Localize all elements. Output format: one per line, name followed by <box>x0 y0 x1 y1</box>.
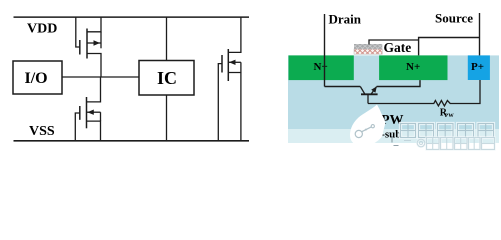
svg-text:Source: Source <box>435 11 473 26</box>
gate electrode (poly) <box>354 44 382 49</box>
Drain terminal line <box>324 14 326 87</box>
M1 gate bar <box>79 40 81 55</box>
wire: drain N+ to BJT collector <box>325 86 361 88</box>
svg-text:PW: PW <box>445 113 454 119</box>
M1 drain lead to VDD <box>87 17 101 32</box>
Source metal wire <box>419 38 480 56</box>
parasitic BJT Q1 (NPN) <box>360 86 377 103</box>
M3 gate bar <box>221 55 223 73</box>
Q1 emitter diagonal with arrow <box>371 87 377 95</box>
M2 gate lead from VSS rail <box>75 113 80 141</box>
M1 bulk-drain tie <box>100 32 102 49</box>
N+ diffusion (drain) <box>289 55 354 80</box>
wire: VDD to IC <box>166 17 168 61</box>
M2 bulk lead with arrow <box>87 111 101 113</box>
M1 source lead to I/O net <box>87 54 101 78</box>
watermark text line 2 (white halo) <box>417 138 494 150</box>
svg-text:N+: N+ <box>314 61 328 73</box>
watermark text line 1 <box>401 124 494 138</box>
M3 drain lead to VDD <box>228 17 241 52</box>
M2 source lead to VSS <box>87 121 101 141</box>
M2 bulk-source tie <box>100 112 102 121</box>
I/O block <box>13 61 62 94</box>
M1 channel bar <box>86 29 88 59</box>
M3 gate lead to VSS rail <box>218 64 222 142</box>
M2 drain lead to I/O net <box>87 77 101 102</box>
M3 source lead to VSS <box>228 73 241 142</box>
M2 gate bar <box>79 106 81 120</box>
Gate terminal box <box>369 40 419 45</box>
svg-text:Drain: Drain <box>329 12 362 27</box>
M1 gate lead from VDD rail <box>76 17 80 47</box>
transistor M3 (NMOS clamp between rails) <box>218 17 241 141</box>
VSS rail (bottom) <box>14 140 250 142</box>
svg-text:IC: IC <box>157 68 177 88</box>
transistor M1 (PMOS pull-up, gate tied to VDD) <box>76 17 101 77</box>
svg-text:VSS: VSS <box>29 124 55 139</box>
M3 channel bar <box>227 49 229 81</box>
N+ diffusion (source) <box>379 55 447 80</box>
M1 bulk lead with arrow <box>87 42 101 44</box>
watermark text line 1 (white halo) <box>401 124 494 138</box>
watermark swoosh logo <box>350 105 385 147</box>
IC block <box>139 61 194 96</box>
P-sub layer <box>288 129 499 143</box>
M3 bulk lead with arrow <box>228 61 241 63</box>
transistor M2 (NMOS pull-down, gate tied to VSS) <box>75 77 100 141</box>
svg-text:I/O: I/O <box>25 70 48 87</box>
Q1 collector diagonal <box>360 87 365 95</box>
watermark text line 2 <box>392 137 495 150</box>
Q1 base bar <box>361 93 378 95</box>
wire: I/O pad net (I/O box to IC box) <box>62 76 139 78</box>
M2 channel bar <box>86 97 88 128</box>
PW well region <box>288 55 499 129</box>
VDD rail (top) <box>14 16 250 18</box>
resistor R_PW <box>368 80 480 119</box>
svg-text:N+: N+ <box>406 61 420 73</box>
wire: BJT emitter to source N+ <box>377 80 420 86</box>
gate oxide hatch <box>354 49 382 54</box>
svg-text:P+: P+ <box>471 61 484 73</box>
Q1 base lead down <box>367 94 369 103</box>
P+ diffusion (bulk contact) <box>468 55 490 80</box>
M3 bulk-source tie <box>240 62 242 72</box>
Source terminal line <box>479 13 481 55</box>
svg-text:Gate: Gate <box>384 40 412 55</box>
wire: IC to VSS <box>166 95 168 141</box>
svg-text:VDD: VDD <box>27 22 57 37</box>
